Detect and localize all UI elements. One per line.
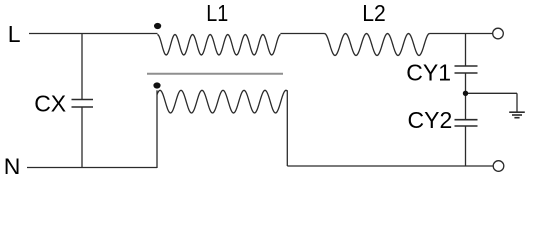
svg-text:L1: L1 <box>206 0 228 26</box>
svg-text:CX: CX <box>34 90 66 116</box>
svg-text:CY2: CY2 <box>408 107 453 133</box>
svg-text:CY1: CY1 <box>406 60 451 86</box>
svg-text:L: L <box>8 21 21 47</box>
svg-text:N: N <box>4 153 21 174</box>
svg-text:L2: L2 <box>362 0 386 26</box>
